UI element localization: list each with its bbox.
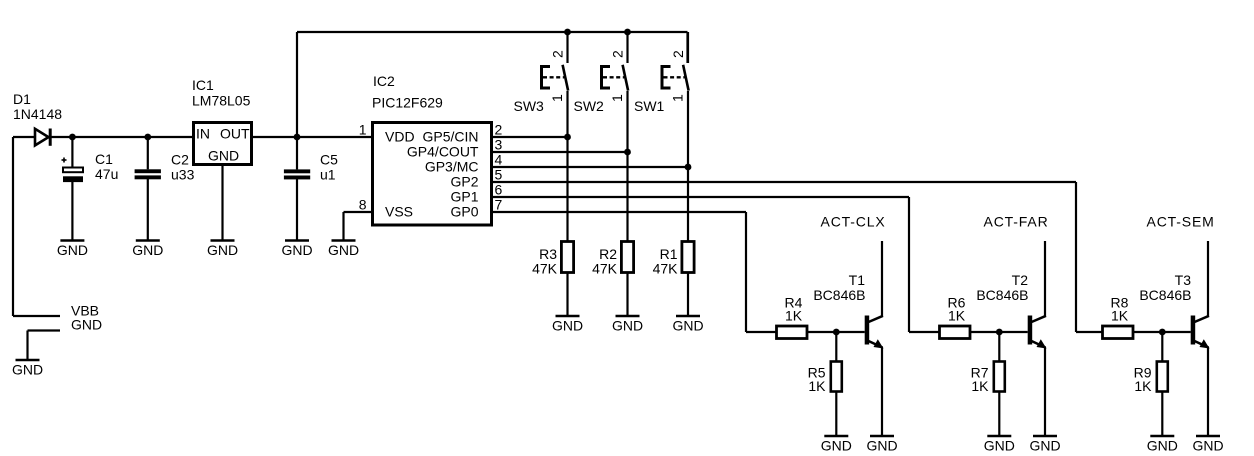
svg-text:D1: D1 (13, 91, 31, 107)
svg-text:SW2: SW2 (574, 98, 605, 114)
svg-text:u33: u33 (171, 167, 195, 183)
svg-text:1K: 1K (808, 378, 826, 394)
svg-text:GND: GND (984, 438, 1015, 454)
svg-text:C5: C5 (320, 152, 338, 168)
svg-text:2: 2 (550, 50, 566, 58)
svg-text:47K: 47K (532, 261, 558, 277)
svg-text:3: 3 (495, 137, 503, 153)
svg-text:IC2: IC2 (373, 73, 395, 89)
svg-text:GND: GND (1029, 438, 1060, 454)
svg-text:1: 1 (549, 94, 565, 102)
svg-text:GP1: GP1 (450, 189, 478, 205)
svg-text:GND: GND (672, 318, 703, 334)
svg-text:ACT-CLX: ACT-CLX (821, 214, 886, 230)
svg-text:1K: 1K (1134, 378, 1152, 394)
svg-text:5: 5 (495, 167, 503, 183)
svg-text:VSS: VSS (385, 204, 413, 220)
svg-text:GND: GND (328, 242, 359, 258)
svg-text:GND: GND (132, 242, 163, 258)
svg-text:GND: GND (552, 318, 583, 334)
svg-text:T3: T3 (1175, 272, 1192, 288)
svg-text:PIC12F629: PIC12F629 (372, 95, 443, 111)
svg-text:C1: C1 (95, 151, 113, 167)
svg-text:BC846B: BC846B (976, 287, 1028, 303)
svg-text:C2: C2 (171, 152, 189, 168)
svg-text:GP2: GP2 (450, 174, 478, 190)
svg-text:GP0: GP0 (450, 204, 478, 220)
svg-text:ACT-FAR: ACT-FAR (984, 214, 1049, 230)
svg-text:7: 7 (495, 197, 503, 213)
svg-text:GP4/COUT: GP4/COUT (407, 144, 479, 160)
svg-text:2: 2 (670, 50, 686, 58)
svg-text:GND: GND (1192, 438, 1223, 454)
svg-text:1N4148: 1N4148 (13, 106, 62, 122)
svg-text:GND: GND (612, 318, 643, 334)
svg-text:GND: GND (71, 317, 102, 333)
svg-text:2: 2 (495, 122, 503, 138)
svg-text:4: 4 (495, 152, 503, 168)
svg-text:2: 2 (610, 50, 626, 58)
svg-text:GND: GND (57, 242, 88, 258)
svg-text:SW1: SW1 (634, 98, 665, 114)
svg-text:GND: GND (1147, 438, 1178, 454)
svg-text:LM78L05: LM78L05 (192, 93, 251, 109)
svg-text:1K: 1K (971, 378, 989, 394)
svg-text:GP5/CIN: GP5/CIN (422, 129, 478, 145)
svg-text:47u: 47u (95, 166, 118, 182)
svg-text:u1: u1 (320, 167, 336, 183)
svg-text:1: 1 (359, 122, 367, 138)
svg-text:47K: 47K (653, 261, 679, 277)
svg-text:ACT-SEM: ACT-SEM (1147, 214, 1215, 230)
svg-text:T1: T1 (849, 272, 866, 288)
svg-text:GND: GND (12, 362, 43, 378)
svg-text:1: 1 (609, 94, 625, 102)
svg-text:IN: IN (196, 126, 210, 142)
svg-text:IC1: IC1 (192, 77, 214, 93)
svg-text:GP3/MC: GP3/MC (425, 159, 479, 175)
svg-text:T2: T2 (1012, 272, 1029, 288)
svg-text:GND: GND (866, 438, 897, 454)
svg-text:GND: GND (208, 148, 239, 164)
svg-text:6: 6 (495, 182, 503, 198)
svg-text:VDD: VDD (385, 129, 415, 145)
svg-text:OUT: OUT (220, 126, 250, 142)
svg-text:1K: 1K (1111, 308, 1129, 324)
svg-text:SW3: SW3 (514, 98, 545, 114)
svg-text:GND: GND (281, 242, 312, 258)
svg-text:47K: 47K (592, 261, 618, 277)
svg-text:GND: GND (207, 242, 238, 258)
svg-text:8: 8 (359, 197, 367, 213)
svg-text:BC846B: BC846B (1139, 287, 1191, 303)
svg-text:1K: 1K (785, 308, 803, 324)
svg-text:1: 1 (670, 94, 686, 102)
svg-text:1K: 1K (948, 308, 966, 324)
svg-text:BC846B: BC846B (813, 287, 865, 303)
svg-text:GND: GND (821, 438, 852, 454)
